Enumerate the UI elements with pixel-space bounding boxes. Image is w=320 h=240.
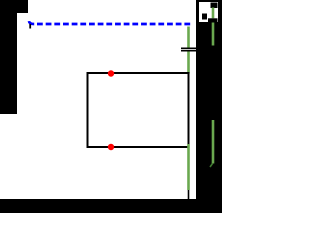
wire: coupler lead lower (green): [187, 52, 190, 74]
right black mask region: [196, 0, 222, 213]
wire: ground stub: [188, 190, 190, 199]
top-right white notch: [199, 2, 218, 22]
wire: right line upper (green): [212, 8, 215, 19]
bottom black mask region: [0, 199, 222, 213]
top-left black mask region: [0, 0, 28, 13]
wire: feedline left hook: [29, 21, 34, 24]
wire: SQUID loop left: [87, 72, 89, 148]
wire: SQUID loop right: [188, 73, 190, 144]
label text mark: [202, 14, 207, 20]
wire: SQUID loop top: [87, 72, 190, 74]
wire: coupler lead upper (green): [187, 27, 190, 48]
node: feedline port tick: [29, 24, 31, 29]
wire: right line end tick: [210, 164, 213, 168]
wire: ground lead (green): [187, 144, 190, 190]
wire: right line lower (green): [212, 120, 215, 164]
node: port terminal top right: [211, 3, 218, 9]
Josephson junction J2 (red): [108, 144, 114, 150]
Josephson junction J1 (red): [108, 70, 114, 76]
wire: right line mid (green): [212, 23, 215, 46]
wire: feedline (blue dashed transmission line): [37, 23, 190, 26]
capacitor C2 plates: [208, 18, 218, 22]
capacitor C1 plates: [181, 47, 196, 49]
wire: SQUID loop bottom: [87, 146, 190, 148]
left black mask region: [0, 0, 17, 114]
